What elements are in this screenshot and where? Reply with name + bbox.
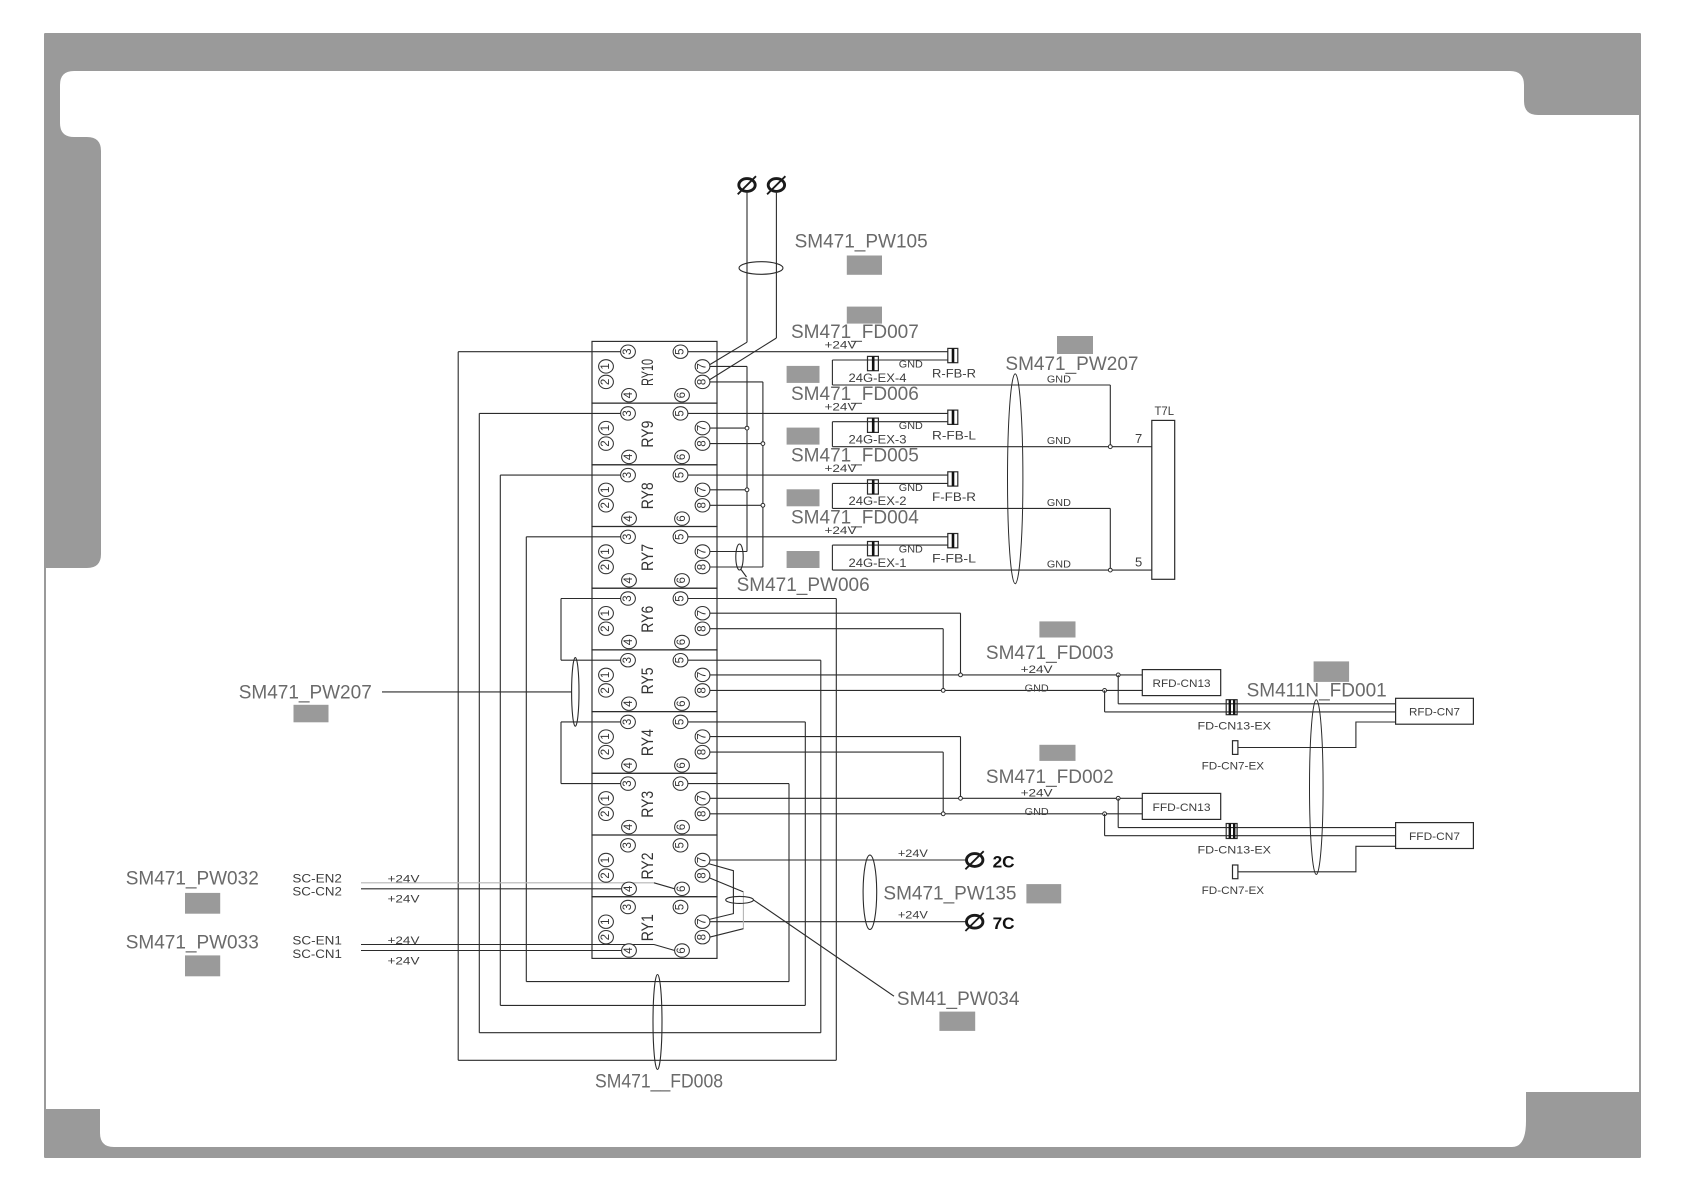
svg-text:RY8: RY8: [638, 482, 657, 509]
svg-text:SC-EN2: SC-EN2: [292, 874, 342, 886]
svg-text:3: 3: [622, 842, 634, 848]
svg-text:2: 2: [600, 379, 612, 385]
svg-text:+24V: +24V: [898, 910, 929, 922]
svg-text:6: 6: [676, 700, 688, 706]
svg-text:FD-CN13-EX: FD-CN13-EX: [1198, 844, 1272, 856]
svg-text:RY7: RY7: [638, 544, 657, 571]
svg-text:4: 4: [623, 823, 635, 830]
svg-text:8: 8: [697, 379, 709, 385]
svg-text:SM41_PW034: SM41_PW034: [897, 989, 1020, 1010]
svg-text:8: 8: [697, 625, 709, 631]
svg-text:7: 7: [697, 363, 709, 369]
svg-text:FD-CN13-EX: FD-CN13-EX: [1198, 721, 1272, 733]
svg-text:8: 8: [697, 564, 709, 570]
svg-text:6: 6: [676, 515, 688, 521]
svg-text:3: 3: [622, 719, 634, 725]
svg-text:2: 2: [600, 934, 612, 940]
svg-text:8: 8: [697, 872, 709, 878]
svg-text:+24V: +24V: [825, 525, 858, 537]
svg-text:SM471__FD008: SM471__FD008: [595, 1072, 723, 1093]
svg-text:3: 3: [622, 472, 634, 478]
svg-text:SM471_FD003: SM471_FD003: [986, 643, 1114, 664]
svg-text:4: 4: [623, 762, 635, 769]
svg-text:GND: GND: [1047, 497, 1071, 509]
svg-text:GND: GND: [1047, 435, 1071, 447]
svg-text:SM471_PW033: SM471_PW033: [126, 933, 259, 954]
svg-text:3: 3: [622, 904, 634, 910]
svg-text:5: 5: [675, 410, 687, 416]
svg-text:6: 6: [676, 577, 688, 583]
svg-text:RFD-CN7: RFD-CN7: [1409, 707, 1460, 719]
svg-text:1: 1: [600, 733, 612, 739]
svg-text:+24V: +24V: [825, 401, 858, 413]
svg-text:7: 7: [697, 425, 709, 431]
svg-text:2: 2: [600, 625, 612, 631]
svg-text:GND: GND: [899, 358, 923, 370]
svg-text:2: 2: [600, 564, 612, 570]
svg-text:RY10: RY10: [638, 359, 657, 386]
svg-text:2: 2: [600, 749, 612, 755]
svg-text:8: 8: [697, 811, 709, 817]
svg-text:4: 4: [623, 391, 635, 398]
svg-text:7: 7: [697, 733, 709, 739]
svg-text:2: 2: [600, 502, 612, 508]
svg-text:RY6: RY6: [638, 606, 657, 633]
svg-text:SC-CN2: SC-CN2: [292, 886, 342, 898]
svg-text:1: 1: [600, 795, 612, 801]
svg-text:SM471_FD002: SM471_FD002: [986, 767, 1114, 788]
svg-text:6: 6: [676, 762, 688, 768]
svg-text:RY5: RY5: [638, 667, 657, 694]
svg-text:GND: GND: [899, 544, 923, 556]
svg-text:6: 6: [676, 886, 688, 892]
svg-text:5: 5: [675, 472, 687, 478]
svg-text:1: 1: [600, 425, 612, 431]
svg-text:FFD-CN7: FFD-CN7: [1409, 831, 1460, 843]
svg-text:+24V: +24V: [825, 463, 858, 475]
svg-text:F-FB-R: F-FB-R: [932, 492, 976, 504]
svg-text:RFD-CN13: RFD-CN13: [1153, 678, 1211, 690]
svg-text:6: 6: [676, 824, 688, 830]
svg-text:6: 6: [676, 454, 688, 460]
svg-text:RY4: RY4: [638, 729, 657, 756]
svg-text:1: 1: [600, 487, 612, 493]
svg-text:4: 4: [623, 700, 635, 707]
svg-text:3: 3: [622, 410, 634, 416]
svg-text:1: 1: [600, 363, 612, 369]
svg-text:24G-EX-1: 24G-EX-1: [849, 558, 907, 570]
svg-text:7: 7: [697, 487, 709, 493]
svg-text:2: 2: [600, 811, 612, 817]
svg-text:1: 1: [600, 672, 612, 678]
svg-text:5: 5: [675, 534, 687, 540]
svg-text:7: 7: [697, 918, 709, 924]
svg-text:RY3: RY3: [638, 791, 657, 818]
svg-text:+24V: +24V: [898, 848, 929, 860]
svg-text:+24V: +24V: [1021, 787, 1054, 799]
svg-text:SM471_PW207: SM471_PW207: [239, 682, 372, 703]
svg-text:8: 8: [697, 934, 709, 940]
svg-text:FD-CN7-EX: FD-CN7-EX: [1202, 885, 1265, 897]
svg-text:SM471_PW105: SM471_PW105: [795, 231, 928, 252]
svg-text:2C: 2C: [993, 852, 1015, 871]
svg-text:GND: GND: [1025, 806, 1049, 818]
svg-text:RY1: RY1: [638, 914, 657, 941]
svg-text:SM471_PW032: SM471_PW032: [126, 869, 259, 890]
svg-text:3: 3: [622, 780, 634, 786]
svg-text:+24V: +24V: [388, 935, 421, 947]
svg-text:7: 7: [697, 672, 709, 678]
svg-text:1: 1: [600, 918, 612, 924]
svg-text:6: 6: [676, 392, 688, 398]
svg-text:1: 1: [600, 610, 612, 616]
svg-text:+24V: +24V: [388, 956, 421, 968]
svg-text:+24V: +24V: [388, 873, 421, 885]
svg-text:GND: GND: [899, 420, 923, 432]
svg-text:FD-CN7-EX: FD-CN7-EX: [1202, 761, 1265, 773]
svg-text:7: 7: [697, 857, 709, 863]
svg-text:5: 5: [675, 842, 687, 848]
svg-text:7C: 7C: [993, 914, 1015, 933]
svg-text:SC-EN1: SC-EN1: [292, 935, 342, 947]
svg-text:2: 2: [600, 687, 612, 693]
svg-text:3: 3: [622, 534, 634, 540]
svg-text:GND: GND: [1025, 683, 1049, 695]
svg-text:6: 6: [676, 947, 688, 953]
svg-text:SM471_PW135: SM471_PW135: [883, 883, 1016, 904]
svg-text:4: 4: [623, 577, 635, 584]
svg-text:8: 8: [697, 440, 709, 446]
svg-text:RY2: RY2: [638, 853, 657, 880]
svg-text:GND: GND: [1047, 373, 1071, 385]
svg-text:5: 5: [675, 719, 687, 725]
svg-text:7: 7: [697, 610, 709, 616]
svg-text:5: 5: [675, 348, 687, 354]
svg-text:1: 1: [600, 548, 612, 554]
svg-text:1: 1: [600, 857, 612, 863]
svg-text:T7L: T7L: [1155, 404, 1175, 418]
svg-text:R-FB-R: R-FB-R: [932, 369, 976, 381]
svg-text:7: 7: [697, 548, 709, 554]
svg-text:2: 2: [600, 872, 612, 878]
svg-text:GND: GND: [899, 482, 923, 494]
svg-text:5: 5: [675, 595, 687, 601]
svg-text:5: 5: [675, 904, 687, 910]
svg-text:7: 7: [1135, 431, 1142, 446]
svg-text:8: 8: [697, 749, 709, 755]
svg-text:SM471_PW207: SM471_PW207: [1005, 354, 1138, 375]
svg-text:GND: GND: [1047, 559, 1071, 571]
svg-text:SC-CN1: SC-CN1: [292, 949, 342, 961]
svg-text:R-FB-L: R-FB-L: [932, 430, 977, 442]
svg-text:8: 8: [697, 687, 709, 693]
svg-text:3: 3: [622, 657, 634, 663]
svg-text:7: 7: [697, 795, 709, 801]
svg-text:6: 6: [676, 639, 688, 645]
svg-text:4: 4: [623, 885, 635, 892]
svg-text:5: 5: [675, 780, 687, 786]
svg-text:4: 4: [623, 453, 635, 460]
svg-text:5: 5: [1135, 555, 1142, 570]
svg-text:8: 8: [697, 502, 709, 508]
svg-text:SM411N_FD001: SM411N_FD001: [1247, 680, 1387, 701]
svg-text:SM471_PW006: SM471_PW006: [737, 575, 870, 596]
svg-text:F-FB-L: F-FB-L: [932, 554, 977, 566]
svg-text:3: 3: [622, 595, 634, 601]
svg-text:RY9: RY9: [638, 421, 657, 448]
svg-text:+24V: +24V: [1021, 664, 1054, 676]
svg-text:4: 4: [623, 515, 635, 522]
svg-text:4: 4: [623, 947, 635, 954]
svg-text:FFD-CN13: FFD-CN13: [1153, 802, 1211, 814]
svg-text:3: 3: [622, 348, 634, 354]
svg-text:2: 2: [600, 440, 612, 446]
svg-text:+24V: +24V: [825, 340, 858, 352]
svg-text:5: 5: [675, 657, 687, 663]
svg-text:+24V: +24V: [388, 893, 421, 905]
svg-text:4: 4: [623, 638, 635, 645]
